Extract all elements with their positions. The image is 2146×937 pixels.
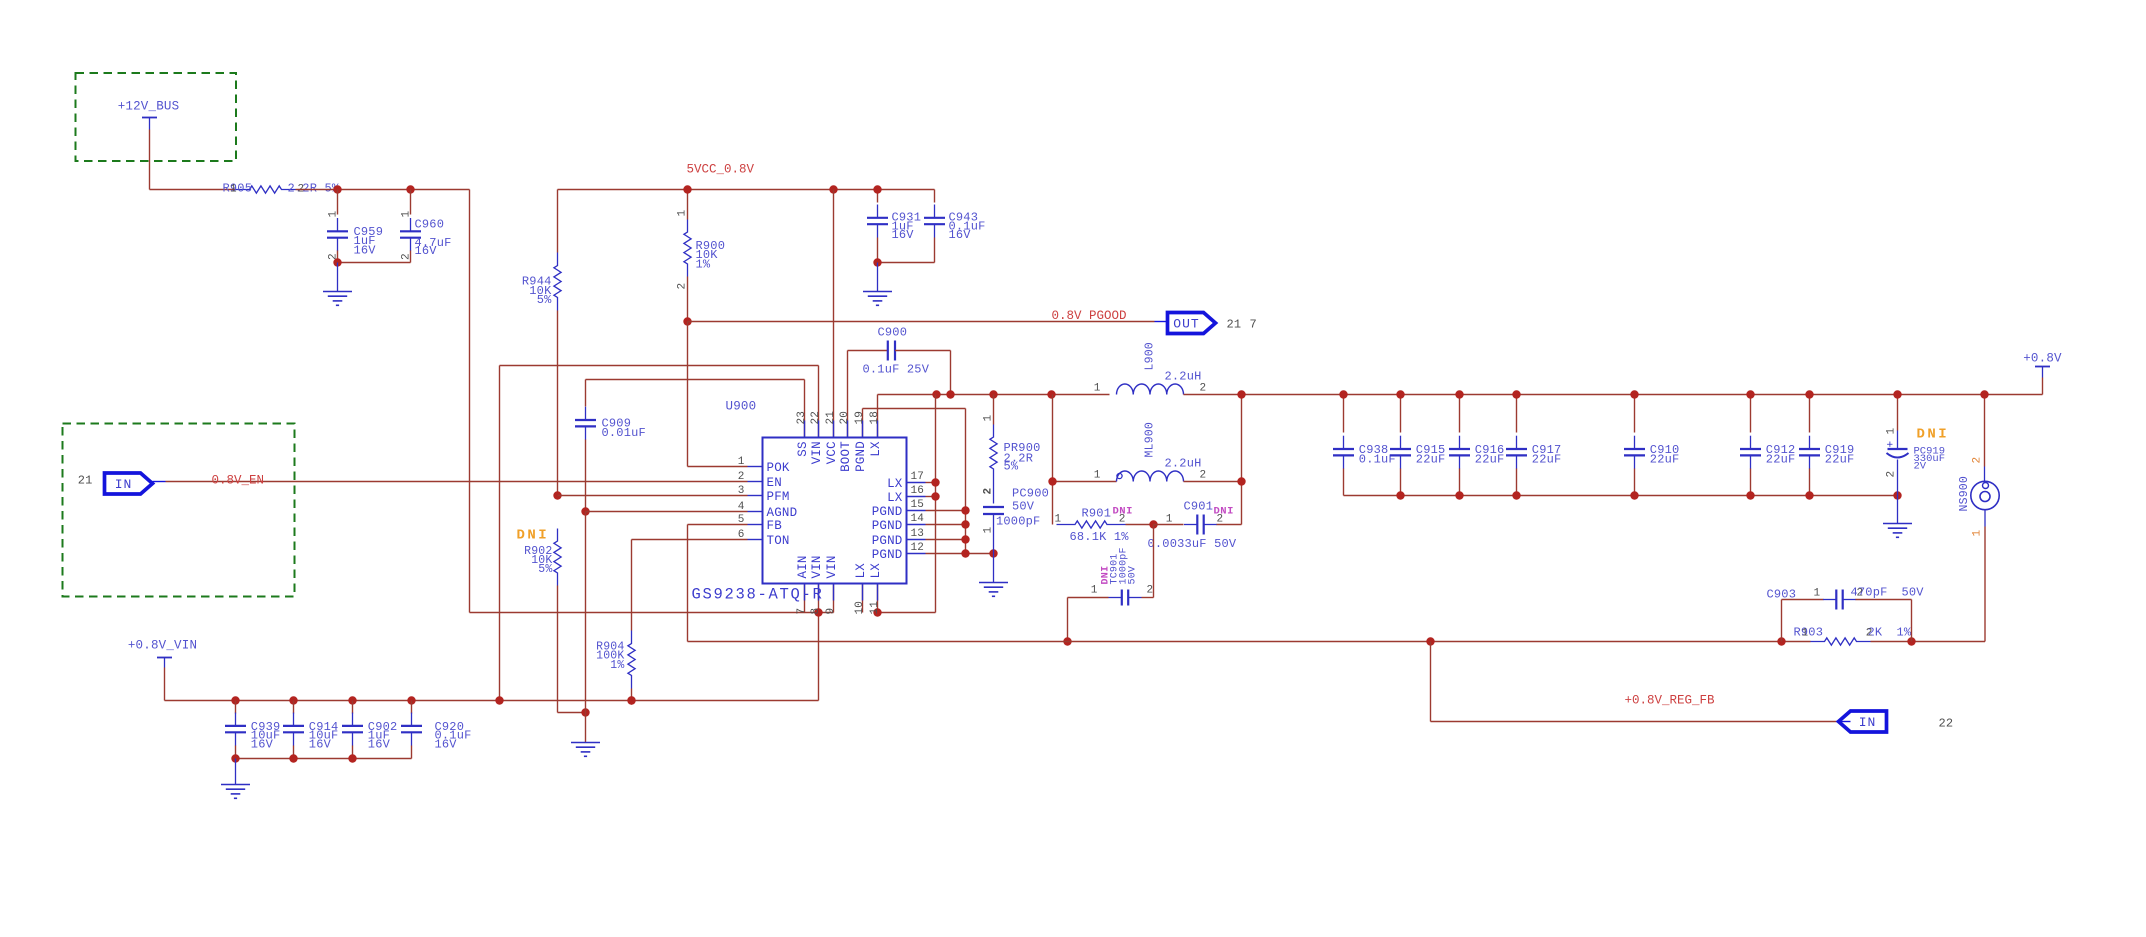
- wire PGND vertical: [926, 511, 994, 554]
- port IN 0.8V_EN: [78, 473, 166, 494]
- junction: [1396, 390, 1404, 398]
- svg-text:1: 1: [1094, 470, 1101, 482]
- svg-text:22uF: 22uF: [1532, 452, 1562, 466]
- svg-text:PGND: PGND: [872, 519, 903, 533]
- resistor R901 DNI: [1055, 506, 1154, 545]
- capacitor C939: [225, 701, 280, 759]
- svg-text:16V: 16V: [949, 228, 972, 242]
- svg-text:2: 2: [1972, 457, 1984, 464]
- resistor R904: [596, 631, 635, 701]
- svg-text:16V: 16V: [251, 737, 274, 751]
- svg-text:R905: R905: [223, 182, 253, 196]
- svg-text:1: 1: [738, 456, 745, 468]
- svg-text:LX: LX: [869, 441, 883, 457]
- svg-text:OUT: OUT: [1173, 317, 1199, 332]
- junction: [1063, 637, 1071, 645]
- wire LX bus left: [878, 394, 1110, 396]
- junction: [873, 608, 881, 616]
- wire R905 to VIN rail: [296, 190, 834, 613]
- svg-text:1: 1: [983, 527, 995, 534]
- svg-text:1: 1: [1166, 514, 1173, 526]
- junction: [961, 506, 969, 514]
- junction: [931, 492, 939, 500]
- svg-text:22uF: 22uF: [1475, 452, 1505, 466]
- junction: [932, 390, 940, 398]
- svg-text:PGND: PGND: [854, 441, 868, 472]
- junction: [989, 549, 997, 557]
- svg-text:2.2uH: 2.2uH: [1165, 370, 1202, 384]
- svg-text:12: 12: [911, 542, 925, 554]
- junction: [1455, 390, 1463, 398]
- junction: [961, 520, 969, 528]
- svg-text:1: 1: [1814, 588, 1821, 600]
- junction: [1048, 477, 1056, 485]
- junction: [1149, 520, 1157, 528]
- wire VIN pins bottom: [805, 584, 834, 701]
- junction: [627, 696, 635, 704]
- svg-text:22uF: 22uF: [1825, 452, 1855, 466]
- svg-text:2: 2: [738, 471, 745, 483]
- svg-text:1: 1: [983, 415, 995, 422]
- ground: [979, 554, 1008, 597]
- svg-text:+0.8V_REG_FB: +0.8V_REG_FB: [1625, 694, 1716, 708]
- capacitor C910: [1624, 395, 1679, 496]
- capacitor C900: [848, 326, 951, 438]
- junction: [1805, 491, 1813, 499]
- svg-text:2.2uH: 2.2uH: [1165, 457, 1202, 471]
- ground: [221, 759, 250, 799]
- svg-text:IN: IN: [115, 477, 133, 492]
- junction: [961, 549, 969, 557]
- svg-text:DNI: DNI: [517, 528, 550, 544]
- svg-text:2: 2: [1200, 470, 1207, 482]
- junction: [1396, 491, 1404, 499]
- svg-text:21: 21: [78, 474, 93, 488]
- svg-text:PGND: PGND: [872, 534, 903, 548]
- resistor R900: [677, 190, 726, 322]
- capacitor C960: [338, 190, 452, 263]
- svg-text:3: 3: [738, 485, 745, 497]
- junction: [683, 185, 691, 193]
- svg-text:16V: 16V: [892, 228, 915, 242]
- capacitor C938: [1333, 395, 1396, 496]
- svg-text:POK: POK: [767, 461, 790, 475]
- capacitor C909: [575, 380, 646, 512]
- power +12V_BUS: [118, 100, 180, 130]
- svg-text:16V: 16V: [368, 737, 391, 751]
- svg-text:2V: 2V: [1914, 461, 1927, 473]
- svg-text:C903: C903: [1767, 588, 1797, 602]
- svg-text:5%: 5%: [538, 563, 552, 576]
- svg-text:1: 1: [1055, 514, 1062, 526]
- svg-text:1: 1: [1094, 383, 1101, 395]
- junction: [348, 696, 356, 704]
- svg-text:6: 6: [738, 529, 745, 541]
- svg-text:19: 19: [854, 411, 866, 425]
- junction: [1237, 390, 1245, 398]
- svg-text:+12V_BUS: +12V_BUS: [118, 100, 180, 114]
- svg-text:13: 13: [911, 528, 925, 540]
- svg-text:2: 2: [1147, 585, 1154, 597]
- svg-text:DNI: DNI: [1917, 427, 1950, 443]
- wire PFM: [558, 495, 748, 497]
- junction: [1512, 390, 1520, 398]
- ground: [1883, 496, 1912, 538]
- svg-text:1: 1: [1972, 530, 1984, 537]
- inductor ML900: [1094, 422, 1207, 482]
- junction: [1630, 491, 1638, 499]
- svg-text:DNI: DNI: [1113, 506, 1133, 518]
- svg-text:16V: 16V: [415, 244, 438, 258]
- junction: [348, 754, 356, 762]
- svg-text:1000pF: 1000pF: [996, 515, 1040, 529]
- svg-text:VIN: VIN: [825, 555, 839, 578]
- junction: [1237, 477, 1245, 485]
- svg-text:TON: TON: [767, 534, 790, 548]
- svg-text:17: 17: [911, 471, 925, 483]
- wire SS: [586, 380, 805, 438]
- svg-text:18: 18: [869, 411, 881, 425]
- capacitor C915: [1390, 395, 1445, 496]
- svg-text:11: 11: [869, 601, 881, 615]
- wire LX pin18 stub: [877, 395, 879, 438]
- svg-text:4: 4: [738, 501, 745, 513]
- svg-text:1: 1: [1091, 585, 1098, 597]
- wire TC901 branch: [1068, 525, 1154, 642]
- wire L900 out: [1184, 395, 2043, 525]
- power +0.8V: [2023, 352, 2062, 395]
- ground: [323, 263, 352, 306]
- junction: [289, 754, 297, 762]
- wire output cap bottoms: [1344, 495, 1898, 497]
- svg-text:68.1K 1%: 68.1K 1%: [1070, 530, 1130, 544]
- capacitor C931: [867, 190, 921, 263]
- svg-text:PGND: PGND: [872, 505, 903, 519]
- svg-text:VIN: VIN: [810, 555, 824, 578]
- svg-text:U900: U900: [726, 400, 757, 414]
- wire C909 ground leg: [585, 512, 587, 743]
- svg-text:2: 2: [1886, 471, 1898, 478]
- junction: [946, 390, 954, 398]
- svg-text:5: 5: [738, 514, 745, 526]
- svg-text:0.0033uF 50V: 0.0033uF 50V: [1148, 537, 1237, 551]
- svg-text:16: 16: [911, 485, 925, 497]
- svg-text:LX: LX: [854, 563, 868, 579]
- svg-text:VIN: VIN: [810, 441, 824, 464]
- svg-text:23: 23: [796, 411, 808, 425]
- wire 0.8V PGOOD: [688, 321, 1155, 323]
- capacitor TC901 DNI: [1068, 547, 1154, 605]
- junction: [1805, 390, 1813, 398]
- svg-text:2: 2: [1857, 588, 1864, 600]
- svg-text:1: 1: [401, 211, 413, 218]
- svg-text:22: 22: [810, 411, 822, 425]
- resistor R944: [522, 190, 561, 496]
- capacitor C912: [1740, 395, 1795, 496]
- wire TON: [632, 540, 748, 631]
- resistor R905: [223, 182, 340, 196]
- junction: [407, 696, 415, 704]
- svg-text:20: 20: [839, 411, 851, 425]
- capacitor C902: [342, 701, 397, 759]
- ground: [863, 263, 892, 306]
- svg-text:1%: 1%: [696, 257, 711, 271]
- inductor L900: [1094, 342, 1207, 394]
- capacitor C959: [327, 190, 383, 263]
- junction: [581, 507, 589, 515]
- svg-text:1: 1: [230, 184, 237, 196]
- junction: [1512, 491, 1520, 499]
- svg-text:0.01uF: 0.01uF: [602, 426, 646, 440]
- wire PGND pin19 route: [863, 409, 966, 554]
- capacitor PC919 DNI polarized: [1886, 395, 1950, 496]
- svg-text:9: 9: [825, 608, 837, 615]
- junction: [873, 258, 881, 266]
- svg-text:7: 7: [1250, 318, 1257, 332]
- junction: [1893, 491, 1901, 499]
- junction: [1980, 390, 1988, 398]
- svg-text:1: 1: [1802, 628, 1809, 640]
- junction: [961, 535, 969, 543]
- power +0.8V_VIN: [128, 639, 197, 668]
- svg-text:5VCC_0.8V: 5VCC_0.8V: [687, 163, 755, 177]
- svg-text:+: +: [1886, 441, 1898, 448]
- svg-text:FB: FB: [767, 519, 783, 533]
- svg-text:PGND: PGND: [872, 548, 903, 562]
- svg-text:5%: 5%: [537, 293, 552, 307]
- wire +0.8V_REG_FB: [1431, 642, 1837, 722]
- junction: [333, 185, 341, 193]
- svg-text:BOOT: BOOT: [839, 441, 853, 472]
- junction: [495, 696, 503, 704]
- svg-text:2: 2: [1200, 383, 1207, 395]
- capacitor C917: [1506, 395, 1561, 496]
- svg-text:2: 2: [1866, 628, 1873, 640]
- wire POK: [688, 322, 748, 467]
- junction: [1455, 491, 1463, 499]
- junction: [1746, 390, 1754, 398]
- wire +12V_BUS to R905: [150, 130, 236, 190]
- green dashed box 2: [63, 424, 295, 597]
- junction: [989, 390, 997, 398]
- junction: [931, 478, 939, 486]
- wire input cap bottoms: [236, 758, 412, 760]
- wire AGND: [586, 511, 748, 513]
- svg-text:22uF: 22uF: [1416, 452, 1446, 466]
- junction: [1893, 390, 1901, 398]
- svg-text:1: 1: [1886, 428, 1898, 435]
- wire LX vertical: [863, 395, 936, 613]
- junction: [333, 258, 341, 266]
- net 5VCC_0.8V rail: [558, 189, 935, 191]
- svg-text:L900: L900: [1144, 342, 1157, 370]
- junction: [1047, 390, 1055, 398]
- junction: [581, 708, 589, 716]
- resistor PR900: [983, 395, 1041, 495]
- svg-text:2.2R 5%: 2.2R 5%: [288, 182, 340, 196]
- junction: [683, 317, 691, 325]
- capacitor PC900: [983, 482, 1050, 554]
- ground: [571, 743, 600, 757]
- svg-text:2: 2: [401, 253, 413, 260]
- capacitor C920: [401, 701, 472, 759]
- svg-text:22uF: 22uF: [1766, 452, 1796, 466]
- port IN +0.8V_REG_FB: [1837, 711, 1954, 732]
- capacitor C914: [283, 701, 338, 759]
- svg-text:0.1uF 25V: 0.1uF 25V: [863, 363, 930, 377]
- svg-text:1%: 1%: [610, 659, 624, 672]
- svg-text:14: 14: [911, 513, 925, 525]
- svg-text:50V: 50V: [1128, 566, 1139, 585]
- svg-text:+0.8V: +0.8V: [2023, 352, 2062, 366]
- svg-text:LX: LX: [887, 491, 903, 505]
- junction: [231, 696, 239, 704]
- green dashed box 1: [76, 73, 237, 161]
- svg-text:ML900: ML900: [1144, 422, 1157, 458]
- svg-text:NS900: NS900: [1958, 476, 1971, 512]
- svg-text:SS: SS: [796, 441, 810, 456]
- svg-text:16V: 16V: [435, 737, 458, 751]
- svg-text:7: 7: [796, 608, 808, 615]
- capacitor C916: [1449, 395, 1504, 496]
- svg-text:21: 21: [1227, 318, 1242, 332]
- svg-text:LX: LX: [887, 477, 903, 491]
- svg-text:16V: 16V: [309, 737, 332, 751]
- wire 0.8V_EN: [166, 481, 748, 483]
- svg-text:0.8V PGOOD: 0.8V PGOOD: [1052, 309, 1127, 323]
- svg-text:21: 21: [825, 411, 837, 425]
- capacitor C943: [878, 190, 986, 263]
- svg-text:EN: EN: [767, 476, 782, 490]
- svg-text:1: 1: [677, 210, 689, 217]
- junction: [1907, 637, 1915, 645]
- svg-text:C900: C900: [878, 326, 908, 340]
- svg-text:1: 1: [328, 211, 340, 218]
- capacitor C901 DNI: [1148, 500, 1242, 552]
- junction: [1339, 390, 1347, 398]
- svg-text:22: 22: [1939, 717, 1954, 731]
- svg-text:2: 2: [677, 283, 689, 290]
- svg-text:50V: 50V: [1902, 586, 1925, 600]
- op-amp U900 GS9238-ATQ-R: [692, 400, 926, 615]
- wire LX to ML900: [1053, 395, 1117, 525]
- junction: [289, 696, 297, 704]
- wire VIN pin22 route: [500, 366, 819, 701]
- wire +0.8V_VIN rail: [165, 668, 819, 701]
- junction: [873, 185, 881, 193]
- junction: [553, 491, 561, 499]
- svg-text:AIN: AIN: [796, 555, 810, 578]
- junction: [829, 185, 837, 193]
- junction: [231, 754, 239, 762]
- resistor R903: [1794, 626, 1912, 646]
- svg-text:GS9238-ATQ-R: GS9238-ATQ-R: [692, 586, 824, 604]
- svg-text:VCC: VCC: [825, 441, 839, 464]
- port OUT 0.8V PGOOD: [1155, 313, 1257, 334]
- wire VCC pin21 route: [833, 190, 835, 438]
- svg-text:AGND: AGND: [767, 506, 798, 520]
- svg-text:50V: 50V: [1012, 500, 1035, 514]
- junction: [1777, 637, 1785, 645]
- svg-text:16V: 16V: [354, 243, 377, 257]
- svg-text:1%: 1%: [1897, 626, 1912, 640]
- svg-text:15: 15: [911, 499, 925, 511]
- svg-text:PC900: PC900: [1012, 487, 1049, 501]
- svg-text:R901: R901: [1082, 507, 1112, 521]
- junction: [814, 608, 822, 616]
- svg-text:10: 10: [854, 601, 866, 615]
- svg-text:0.8V_EN: 0.8V_EN: [212, 474, 265, 488]
- junction: [1630, 390, 1638, 398]
- resistor R902 DNI: [517, 528, 586, 713]
- capacitor C903: [1767, 586, 1925, 642]
- svg-text:+0.8V_VIN: +0.8V_VIN: [128, 639, 197, 653]
- svg-text:LX: LX: [869, 563, 883, 579]
- svg-text:C960: C960: [415, 218, 445, 232]
- jack NS900: [1958, 395, 1999, 642]
- svg-text:2: 2: [983, 488, 995, 495]
- svg-text:22uF: 22uF: [1650, 452, 1680, 466]
- svg-text:DNI: DNI: [1214, 506, 1234, 518]
- capacitor C919: [1799, 395, 1854, 496]
- svg-text:C901: C901: [1184, 500, 1214, 514]
- junction: [406, 185, 414, 193]
- junction: [1746, 491, 1754, 499]
- svg-text:8: 8: [810, 608, 822, 615]
- junction: [627, 696, 635, 704]
- svg-text:PFM: PFM: [767, 490, 790, 504]
- junction: [1426, 637, 1434, 645]
- svg-text:5%: 5%: [1004, 459, 1019, 473]
- wire FB net: [688, 525, 1986, 642]
- svg-text:IN: IN: [1859, 715, 1877, 730]
